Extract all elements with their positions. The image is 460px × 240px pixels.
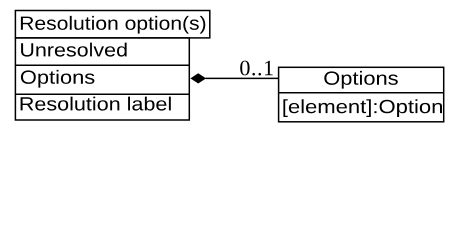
attribute text: Unresolved xyxy=(21,43,127,57)
multiplicity label 0..1 xyxy=(240,61,273,76)
composition diamond on Options attribute xyxy=(190,73,206,83)
divider line under Unresolved xyxy=(15,64,189,66)
attribute text: Options xyxy=(21,70,95,88)
attribute text: [element]:Option xyxy=(283,99,442,117)
title text: Resolution option(s) xyxy=(21,16,205,34)
class Options: title/attribute divider xyxy=(279,92,444,94)
attribute text: Resolution label xyxy=(21,97,171,111)
class Resolution option(s): title compartment box xyxy=(15,11,209,38)
class Options: outer box xyxy=(279,67,444,122)
class Resolution option(s): attributes compartment box xyxy=(15,38,189,120)
association wire to Options class xyxy=(206,77,279,79)
title text: Options xyxy=(324,71,398,89)
divider line under Options xyxy=(15,93,189,95)
